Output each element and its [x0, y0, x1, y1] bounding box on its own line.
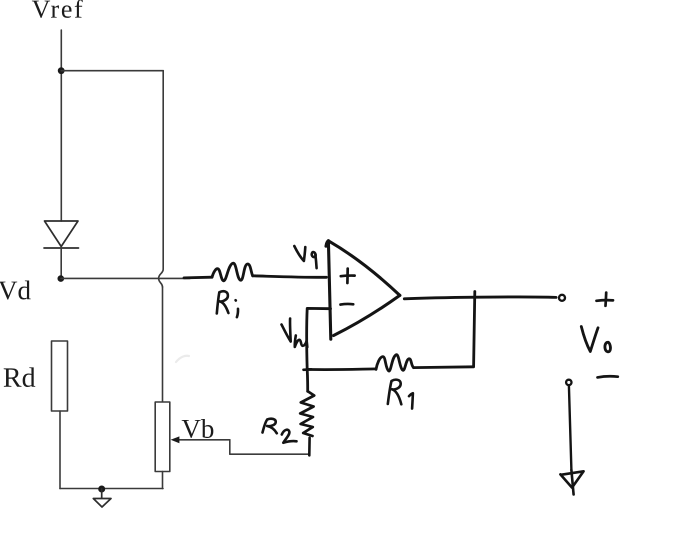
- resistor Rd body: [52, 341, 68, 411]
- wire output branch vertical: [474, 292, 475, 367]
- wire Rd to bottom rail: [59, 411, 61, 489]
- wire bottom rail: [60, 488, 163, 490]
- label Vp: [294, 246, 316, 268]
- wire op-amp minus input to Vn: [307, 308, 331, 369]
- wire lower terminal to arrow: [569, 385, 572, 470]
- wire right branch vertical lower: [162, 287, 164, 402]
- label R2: [263, 419, 297, 443]
- wire Vd node to Ri: [61, 277, 190, 279]
- svg-text:Vref: Vref: [32, 0, 83, 24]
- svg-text:Vd: Vd: [0, 275, 31, 305]
- op-amp plus sign: [341, 269, 355, 283]
- resistor R1: [376, 355, 414, 371]
- node junction Vref/divider: [58, 67, 65, 74]
- net label Vref: [32, 0, 83, 24]
- wire Vref vertical: [60, 30, 62, 221]
- net label Vd: [0, 275, 31, 305]
- wire potentiometer to bottom rail: [162, 472, 164, 489]
- ground: [93, 486, 111, 508]
- faint smudge: [176, 356, 189, 362]
- wire R2 tail: [308, 438, 311, 456]
- wire hop crossing at Vd line: [159, 269, 164, 287]
- label R1: [388, 380, 413, 409]
- wire top horizontal to right branch: [61, 70, 163, 72]
- wire Vn node to R2: [306, 369, 309, 391]
- lower terminal circle: [566, 380, 571, 385]
- minus sign output: [598, 376, 618, 377]
- wire R1 to output branch: [414, 365, 474, 369]
- wire hand lead into Ri: [184, 276, 212, 279]
- wire op-amp output: [404, 297, 556, 299]
- wire right branch vertical upper: [162, 71, 164, 269]
- resistor R2: [300, 391, 314, 436]
- label Rd: [3, 363, 36, 394]
- svg-text:Vb: Vb: [181, 414, 214, 444]
- wiper arrow Vb: [171, 436, 230, 443]
- wire Ri to op-amp + input: [253, 276, 327, 278]
- op-amp minus sign: [341, 303, 354, 306]
- resistor Ri: [212, 263, 253, 281]
- wire diode to node Vd: [60, 248, 62, 279]
- net label Vb: [181, 414, 214, 444]
- node Vd junction: [58, 275, 65, 282]
- potentiometer body: [155, 402, 170, 472]
- svg-text:Rd: Rd: [3, 363, 36, 394]
- wire Vn to R1: [307, 367, 376, 371]
- wire Vb step to R2: [230, 440, 309, 454]
- output terminal + circle: [559, 295, 565, 301]
- label Ri: [217, 291, 238, 317]
- label Vn: [282, 319, 308, 347]
- plus sign output: [597, 293, 614, 306]
- node Vn junction tick: [304, 368, 312, 371]
- arrow to ground: [560, 470, 583, 495]
- label Vo: [581, 327, 610, 352]
- diode D1: [44, 221, 79, 248]
- op-amp U1: [326, 241, 400, 339]
